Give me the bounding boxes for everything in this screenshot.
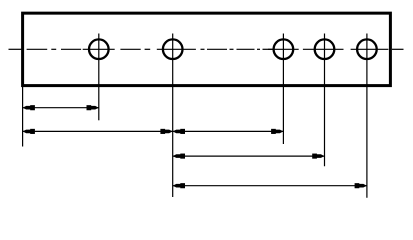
hole 3 vertical centerline / extension line: [282, 34, 284, 145]
hole 3: [274, 39, 294, 59]
dim1 right arrow: [90, 106, 99, 110]
hole 4: [315, 39, 335, 59]
dim4 left arrow: [173, 184, 182, 188]
hole 1: [89, 39, 109, 59]
hole 4 vertical centerline / extension line: [324, 34, 326, 167]
dim2 left arrow: [23, 130, 32, 134]
dimension line 2 (chain): [23, 130, 284, 132]
dim1 left arrow: [23, 106, 32, 110]
dim2 right arrow: [274, 130, 283, 134]
dim2 middle arrow pointing right: [164, 130, 173, 134]
hole 1 crosshair horizontal: [83, 48, 115, 50]
centerline dashes left of hole 1: [9, 48, 82, 50]
plate outline: [23, 13, 391, 85]
dim2 middle arrow pointing left: [173, 130, 182, 134]
dimension line 3: [173, 155, 325, 157]
centerline right stub outside plate: [392, 48, 404, 50]
hole 1 vertical centerline / extension line: [98, 34, 100, 121]
hole 2: [163, 39, 183, 59]
hole 4 crosshair horizontal: [303, 48, 344, 50]
centerline dashes between hole 1 and hole 2: [120, 48, 150, 50]
left edge extension line: [22, 86, 24, 147]
dimension line 4: [173, 185, 367, 187]
dim3 left arrow: [173, 154, 182, 158]
hole 2 crosshair horizontal: [157, 48, 196, 50]
dimension line 1: [23, 107, 99, 109]
hole 5 crosshair horizontal: [351, 48, 389, 50]
hole 5 vertical centerline / extension line: [366, 34, 368, 198]
hole 5: [357, 39, 377, 59]
centerline dashes between hole 2 and hole 3: [201, 48, 275, 50]
hole 2 vertical centerline / extension line: [172, 34, 174, 198]
dim3 right arrow: [315, 154, 324, 158]
dim4 right arrow: [358, 184, 367, 188]
hole 3 crosshair horizontal: [268, 48, 299, 50]
